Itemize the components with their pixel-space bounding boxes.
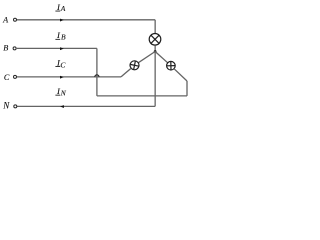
svg-text:C: C xyxy=(60,61,66,70)
wire phase A line xyxy=(17,19,155,21)
wire phase C line xyxy=(17,76,121,78)
wire top lamp to star node xyxy=(154,46,156,52)
label IC xyxy=(55,58,66,70)
label IA xyxy=(55,2,65,13)
crossover hop of C over B vertical xyxy=(95,75,99,77)
svg-text:N: N xyxy=(2,101,10,111)
svg-text:C: C xyxy=(4,73,10,82)
wire S diagonal to left lamp xyxy=(138,52,155,63)
svg-text:A: A xyxy=(60,4,66,13)
svg-text:B: B xyxy=(61,33,66,42)
svg-text:N: N xyxy=(60,89,67,98)
wire A drop to top lamp xyxy=(154,20,156,33)
wire B vertical drop xyxy=(96,48,98,96)
lamp HL1 (top) xyxy=(149,34,161,46)
wire right vertical down xyxy=(186,81,188,96)
lamp HL3 (right) xyxy=(167,61,176,70)
label IB xyxy=(55,30,66,42)
lamp HL2 (left) xyxy=(130,61,139,70)
wire left lamp diagonal down to C line xyxy=(121,68,131,77)
arrow current IC xyxy=(60,76,64,79)
arrow current IA xyxy=(60,19,64,22)
svg-text:A: A xyxy=(2,16,9,25)
node S junction dot xyxy=(154,50,157,53)
svg-text:B: B xyxy=(3,44,8,53)
arrow current IN (points left) xyxy=(60,105,64,108)
terminal A xyxy=(14,18,17,21)
terminal N xyxy=(14,105,17,108)
terminal C xyxy=(14,75,17,78)
wire star node down to N xyxy=(154,52,156,107)
wire phase B line xyxy=(17,47,97,49)
wire bottom horizontal to B drop xyxy=(97,95,187,97)
wire neutral N line xyxy=(17,105,155,107)
label IN xyxy=(55,86,66,98)
wire S diagonal to right lamp xyxy=(155,52,168,63)
wire right lamp diagonal down to corner xyxy=(174,69,187,81)
arrow current IB xyxy=(60,47,64,50)
terminal B xyxy=(13,47,16,50)
